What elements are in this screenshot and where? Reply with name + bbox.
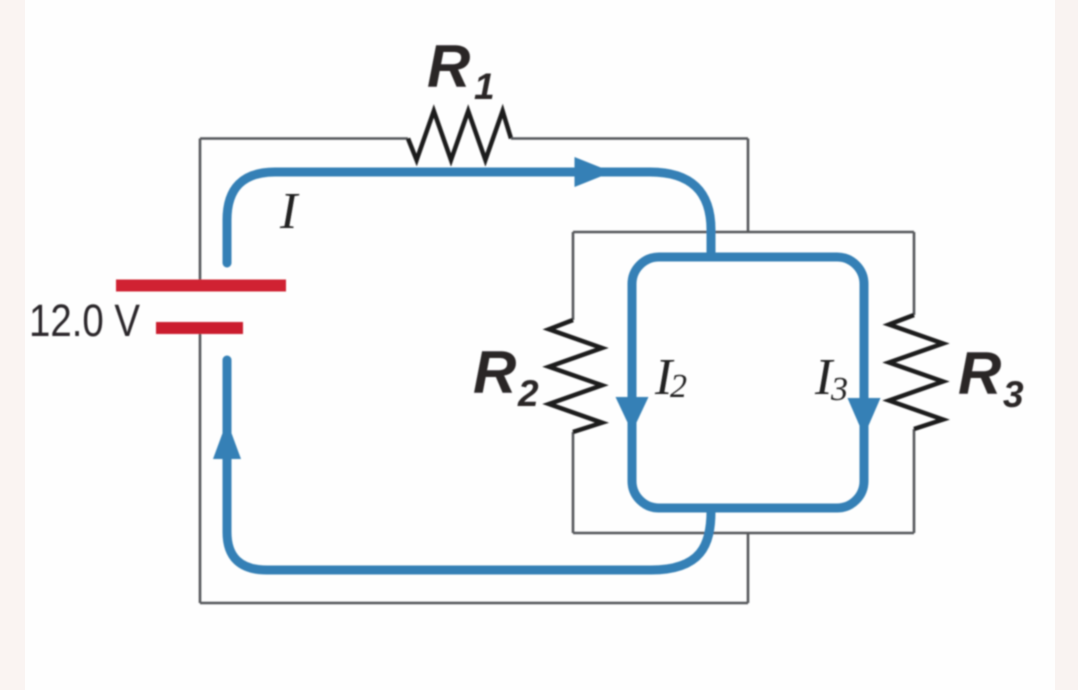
wire: outer loop bottom segment [200,602,748,605]
arrowhead: current I3 (pointing down) [848,398,881,436]
wire: outer loop right lower segment [747,533,750,603]
battery B1 positive plate (long red bar) [116,280,286,292]
resistor R1 [408,111,511,160]
battery B1 negative plate (short red bar) [156,322,243,334]
label R1 [427,33,495,107]
wire: inner box right upper segment [913,232,916,315]
wire: inner box right lower segment [913,429,916,533]
wire: outer loop left lower segment from battery [199,333,202,603]
arrowhead: current I2 (pointing down) [616,397,649,432]
wire: inner box bottom segment [573,532,914,535]
wire: inner box left lower segment [572,432,575,533]
wire: blue inner parallel loop [632,257,864,508]
wire: outer loop top-right segment [511,137,748,140]
wire: outer loop top-left segment [200,137,408,140]
label current I3 [814,349,848,408]
label R2 [473,339,539,414]
label current I2 [654,349,687,406]
svg-text:I: I [279,183,300,240]
svg-text:2: 2 [517,373,539,414]
resistor R2 [549,320,602,432]
svg-text:3: 3 [1003,374,1024,415]
wire: outer loop right upper segment [747,139,750,233]
svg-text:1: 1 [474,66,495,107]
label R3 [958,340,1024,415]
svg-text:3: 3 [830,371,848,408]
svg-text:R: R [427,33,470,100]
wire: blue current path, battery + to inner box top [227,172,711,263]
wire: outer loop left upper segment to battery [199,139,202,281]
svg-text:12.0 V: 12.0 V [29,295,140,346]
svg-text:R: R [958,340,1001,407]
wire: inner box left upper segment [572,232,575,320]
svg-text:R: R [473,339,516,406]
svg-text:2: 2 [670,368,687,405]
wire: inner box top segment [573,231,914,234]
arrowhead: current I (left, pointing up) [213,421,241,459]
wire: blue current path, inner box bottom to battery - [227,360,711,570]
resistor R3 [889,315,943,429]
arrowhead: current I (top, pointing right) [575,157,613,187]
